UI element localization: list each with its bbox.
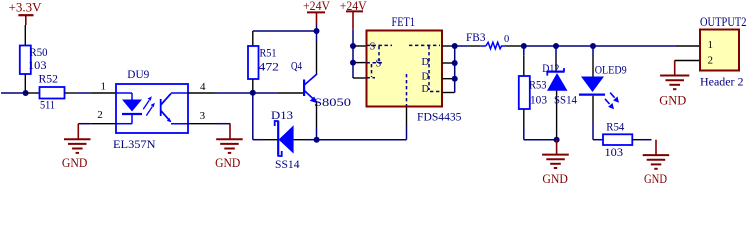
resistor R52 [39,74,65,112]
ground GND (DU9 pin2) [62,124,91,171]
svg-text:0: 0 [504,34,509,45]
DU9 phototransistor [161,93,188,124]
node junction R50/input [23,90,29,96]
DU9 light arrows [143,96,155,115]
node OLED9 junction [590,43,596,49]
FET gate hidden pin [406,74,408,106]
svg-text:GND: GND [215,155,240,170]
svg-text:103: 103 [605,147,624,159]
diode D13 SS14 [271,110,317,171]
svg-text:511: 511 [40,100,55,112]
LED OLED9 [579,46,627,140]
svg-text:GND: GND [644,171,667,185]
wire R52 to DU9 pin1 [65,92,117,94]
node D12 junction [553,43,559,49]
resistor R50 [20,46,48,75]
node collector junction [314,28,320,34]
svg-text:S: S [376,59,382,70]
svg-text:FET1: FET1 [392,14,416,29]
DU9 LED [116,93,142,124]
resistor R51 [248,31,279,90]
svg-text:EL357N: EL357N [113,139,156,151]
FET hidden pins right (D) [409,45,440,91]
svg-text:GND: GND [659,92,686,107]
FET hidden pins left (S) [367,45,393,77]
svg-text:OUTPUT2: OUTPUT2 [700,14,747,29]
wire R50 bottom pin [24,74,26,93]
resistor R54 [593,122,652,160]
wire gate net [317,107,407,140]
svg-text:1: 1 [101,80,107,92]
svg-text:103: 103 [28,60,47,72]
FET D pin labels [422,57,430,95]
svg-text:4: 4 [200,81,206,93]
wire FB3 to output net [505,45,521,47]
svg-text:R54: R54 [606,122,624,134]
svg-text:1: 1 [708,39,714,51]
svg-text:D13: D13 [271,110,293,122]
svg-text:SS14: SS14 [554,95,577,107]
svg-text:FDS4435: FDS4435 [417,112,462,124]
node emitter junction [314,137,320,143]
svg-text:D: D [422,57,430,68]
wire DU9 pin4 to base node [188,92,253,94]
wire FET source bus [353,30,367,78]
svg-text:+24V: +24V [303,0,330,13]
node S2 junction [350,60,356,66]
diode D12 SS14 [542,46,577,140]
svg-text:2: 2 [708,54,714,66]
resistor R53 [519,46,547,140]
power +3.3V [9,1,42,25]
op-amp DU9 optocoupler box [113,69,188,151]
wire R50 top pin [24,25,26,46]
svg-text:R52: R52 [39,74,59,86]
wire drain to FB3 [455,45,468,47]
svg-text:2: 2 [97,109,103,121]
svg-text:S8050: S8050 [314,97,351,109]
node D3 junction [452,76,458,82]
svg-text:Q4: Q4 [291,61,302,73]
node R53 junction [521,43,527,49]
wire output pin1 stub [676,45,700,47]
wire collector top rail [253,30,317,32]
svg-text:R51: R51 [260,48,277,60]
svg-text:OLED9: OLED9 [595,65,627,77]
node D1 junction [452,43,458,49]
node D2 junction [452,60,458,66]
ground GND (R53/D12) [542,140,569,186]
node GND junction [554,137,560,143]
wire output pin2 [675,60,701,62]
wire DU9 pin3 to GND [188,123,230,125]
wire base node to Q4 [253,92,303,94]
svg-text:D12: D12 [542,63,559,75]
node S1 junction [350,43,356,49]
svg-text:R53: R53 [529,80,547,92]
transistor Q2 Q4 S8050 [291,31,351,140]
svg-text:D: D [422,84,430,95]
svg-text:Header 2: Header 2 [700,75,744,89]
OLED9 light arrows [605,93,619,110]
wire R53 to D12 bottom [524,139,557,141]
svg-text:3: 3 [200,110,206,122]
FET S pin labels [370,42,382,70]
inductor FB3 [466,32,509,49]
ground GND (DU9 pin3) [215,124,243,171]
svg-text:103: 103 [530,95,547,107]
svg-text:S: S [370,42,376,53]
wire main input [1,92,26,94]
svg-text:SS14: SS14 [275,159,300,171]
power +24V (Q4 collector) [303,0,330,31]
wire DU9 pin2 to GND [78,123,116,125]
svg-text:GND: GND [62,155,88,170]
svg-text:D: D [422,72,430,83]
ground GND (R54) [643,140,670,186]
wire to R52 [26,92,40,94]
svg-text:+3.3V: +3.3V [9,1,42,15]
connector OUTPUT2 Header 2 [700,14,747,89]
svg-text:472: 472 [259,62,280,74]
transistor U1 FET1 FDS4435 box [367,14,462,124]
svg-text:FB3: FB3 [466,32,486,44]
node base junction [250,90,256,96]
power +24V (FET source) [340,0,367,30]
ground GND (OUTPUT2 pin2) [659,61,689,108]
wire to D13 cathode [253,139,278,141]
wire FET drain bus [442,46,455,93]
svg-text:DU9: DU9 [127,69,149,81]
svg-text:R50: R50 [30,47,48,59]
wire base node down to D13 [252,93,254,140]
svg-text:GND: GND [542,171,568,185]
